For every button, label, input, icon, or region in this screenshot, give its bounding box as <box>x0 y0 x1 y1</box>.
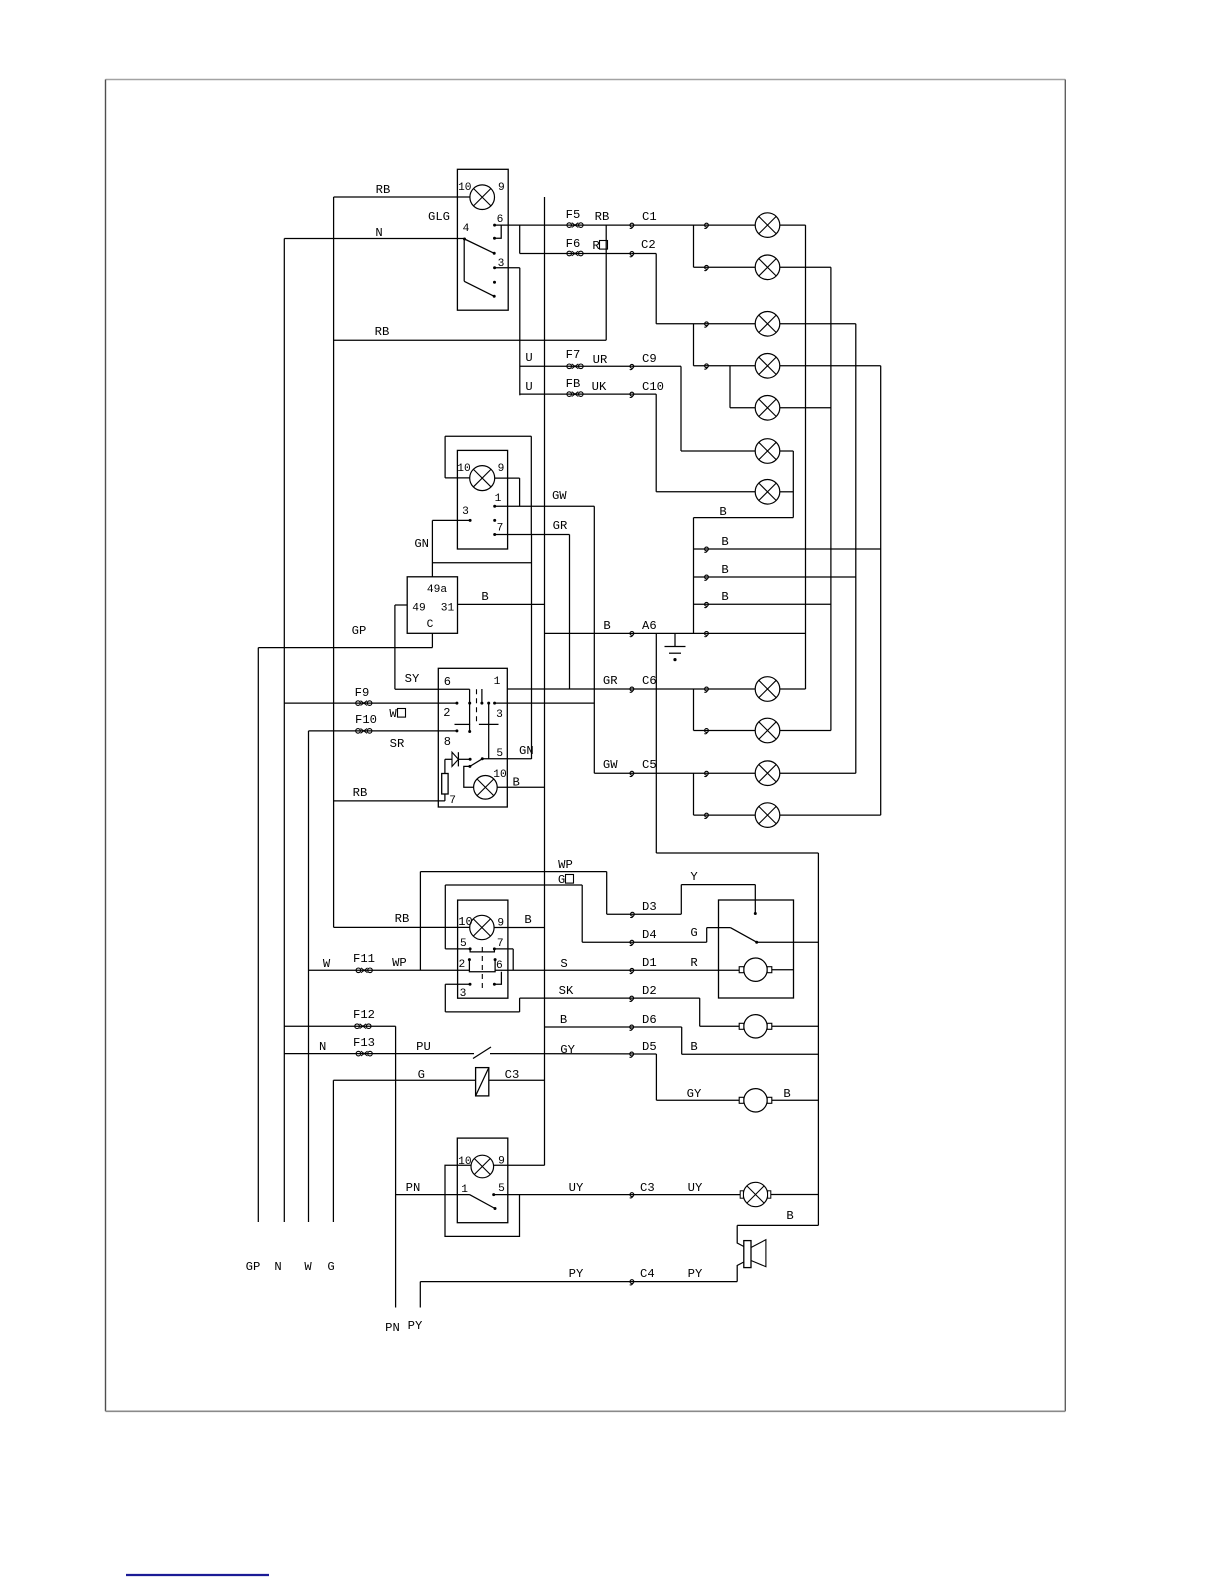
svg-text:RB: RB <box>395 912 410 926</box>
svg-text:F12: F12 <box>353 1008 375 1022</box>
wire row C6-2 feed <box>694 730 756 732</box>
wire GR row from pin7 <box>495 534 570 536</box>
wire rail N vert <box>283 239 285 1223</box>
svg-text:GP: GP <box>246 1260 261 1274</box>
U3 pin1 bracket dot <box>480 702 483 705</box>
wire pin3 drop vertical <box>519 268 521 396</box>
svg-text:2: 2 <box>459 959 466 971</box>
wire WP top row <box>420 871 606 873</box>
svg-text:GW: GW <box>552 489 567 503</box>
svg-text:N: N <box>375 226 382 240</box>
wire D2 drop to motor2 <box>699 998 701 1026</box>
horn H1 <box>744 1240 766 1268</box>
U4 pin3 row <box>445 983 470 985</box>
wire B row D6 <box>545 1026 682 1028</box>
wire PU to D5 <box>490 1053 632 1055</box>
U3 pin1 bracket <box>481 689 483 703</box>
fuse F6 <box>567 251 583 256</box>
svg-text:B: B <box>560 1013 567 1027</box>
svg-text:49: 49 <box>412 603 425 615</box>
U4 pin2 bracket <box>468 958 471 969</box>
wire motor M3 return <box>772 1099 819 1101</box>
wire relay C stub <box>431 633 433 647</box>
wire U3 lamp B out <box>497 786 544 788</box>
wire C6 row <box>507 688 755 690</box>
svg-text:PN: PN <box>406 1181 421 1195</box>
wire pin3 bottom row <box>445 1011 519 1013</box>
svg-text:G: G <box>690 926 697 940</box>
svg-text:B: B <box>721 590 728 604</box>
svg-text:1: 1 <box>461 1184 468 1196</box>
wire return vert L1 <box>805 225 807 689</box>
svg-text:7: 7 <box>497 523 504 535</box>
wire return vert L4 <box>880 366 882 815</box>
circuit breaker C3 <box>476 1068 489 1096</box>
svg-text:PU: PU <box>416 1040 431 1054</box>
junction connector C5 row <box>704 771 708 776</box>
wire U row1 to C9 <box>520 365 632 367</box>
lamp L9 <box>755 718 780 743</box>
lamp L7 <box>755 480 780 505</box>
wire U4 lamp B out <box>494 927 544 929</box>
wire row3 feed <box>656 323 755 325</box>
wire motor2 feed <box>700 1025 740 1027</box>
connector D3 <box>630 912 634 917</box>
U3 left contact bar <box>469 689 471 732</box>
wire B row top <box>694 517 794 519</box>
wire U3 pin5 row <box>482 758 531 760</box>
wire A6 row <box>545 632 806 634</box>
svg-text:U: U <box>525 380 532 394</box>
junction connector C5 row2 <box>704 813 708 818</box>
lamp L2 <box>755 255 780 280</box>
junction connector A6 row <box>704 632 708 637</box>
wire D6 to bus <box>682 1053 819 1055</box>
connector C1 <box>630 223 634 228</box>
fuse F5 <box>567 223 583 228</box>
wire U3 pin6 row <box>395 688 470 690</box>
wire RB loop right vert <box>530 436 532 534</box>
svg-text:D1: D1 <box>642 956 657 970</box>
wire D6 drop <box>681 1027 683 1054</box>
wire GN link row <box>432 562 531 564</box>
U1 switch arm 1 <box>465 239 495 253</box>
wire RB row2 <box>334 339 607 341</box>
wire C10 drop <box>655 394 657 492</box>
wire lamp L1 return <box>780 224 806 226</box>
motor M2 <box>739 1015 772 1038</box>
svg-text:B: B <box>721 535 728 549</box>
U3 switch arm <box>470 759 482 767</box>
svg-text:SR: SR <box>390 737 405 751</box>
svg-text:B: B <box>690 1040 697 1054</box>
wire U4 pin5 row <box>445 948 470 950</box>
junction connector B549 <box>704 547 708 552</box>
svg-text:B: B <box>786 1209 793 1223</box>
lamp L8 <box>755 677 780 702</box>
wire SY vert <box>394 605 396 689</box>
panel switch box U5 <box>457 1138 508 1223</box>
wire PN row <box>396 1194 470 1196</box>
wire F6 row to C2 <box>520 253 632 255</box>
connector C3 inline <box>630 1193 634 1198</box>
svg-text:GR: GR <box>603 674 618 688</box>
wire D4 G jog <box>706 928 708 943</box>
flasher relay K1 <box>407 577 457 634</box>
wire lamp L6 return <box>780 450 794 452</box>
wire row7 feed <box>656 491 755 493</box>
svg-text:F6: F6 <box>566 237 581 251</box>
wire D3 row <box>607 913 682 915</box>
wire ground bus vertical <box>693 518 695 634</box>
wire C2 jog right <box>632 253 656 255</box>
wire resistor to pin7 <box>444 794 446 801</box>
junction connector B577 <box>704 575 708 580</box>
svg-text:N: N <box>274 1260 281 1274</box>
wire GR descent <box>569 535 571 690</box>
U1 switch arm pivot dot <box>463 238 466 241</box>
U3 diode contact dot <box>469 758 472 761</box>
wire row5 feed <box>730 407 755 409</box>
wire pin3 exit <box>495 267 520 269</box>
wire branch vert rows3-4 <box>693 324 695 366</box>
svg-text:GW: GW <box>603 758 618 772</box>
svg-text:WP: WP <box>392 956 407 970</box>
connector D1 <box>630 968 634 973</box>
U3 right bar top dot <box>487 702 490 705</box>
connector D5 <box>630 1052 634 1057</box>
M1 arm tip dot <box>755 941 758 944</box>
wire rail RB vert <box>333 197 335 927</box>
wire F13 PU row <box>284 1053 474 1055</box>
wire horn bottom lead <box>737 1262 744 1282</box>
svg-text:10: 10 <box>458 1156 472 1168</box>
svg-text:C10: C10 <box>642 380 664 394</box>
lamp L4 <box>755 354 780 379</box>
svg-text:C6: C6 <box>642 674 657 688</box>
wire branch vert C1-C2 rows <box>693 225 695 267</box>
svg-text:SK: SK <box>559 984 574 998</box>
connector C9 <box>630 364 634 369</box>
svg-text:F5: F5 <box>566 208 581 222</box>
svg-text:3: 3 <box>496 709 503 721</box>
svg-text:C3: C3 <box>640 1181 655 1195</box>
wire rail W vert <box>308 731 310 1222</box>
wire horn B row <box>737 1224 818 1226</box>
U1 arm2 tip dot <box>493 295 496 298</box>
wire B row 604 <box>694 603 831 605</box>
lamp L1 <box>755 213 780 238</box>
svg-text:9: 9 <box>498 182 505 194</box>
M1 switch arm <box>730 928 756 943</box>
svg-text:GN: GN <box>414 537 429 551</box>
svg-text:D6: D6 <box>642 1013 657 1027</box>
switch box U2 <box>457 450 507 549</box>
wire RB row to box4 <box>334 926 470 928</box>
fuse F10 <box>356 729 372 734</box>
svg-text:B: B <box>783 1087 790 1101</box>
U1 contact dot row2 <box>493 237 496 240</box>
U2 pin3 row <box>432 519 469 521</box>
svg-text:7: 7 <box>449 795 456 807</box>
svg-text:SY: SY <box>405 672 420 686</box>
motor M1 <box>739 958 772 981</box>
U1 pivot extension <box>463 239 465 281</box>
wire U5 pin10 loop <box>445 1165 520 1236</box>
diode D in U3 <box>445 752 470 766</box>
U5 arm tip dot <box>494 1207 497 1210</box>
junction connector C6 row <box>704 687 708 692</box>
U3 arm top dot <box>481 757 484 760</box>
svg-text:B: B <box>721 563 728 577</box>
svg-text:3: 3 <box>462 506 469 518</box>
wire D3 riser <box>680 885 682 915</box>
wire RB loop top <box>445 435 531 437</box>
svg-text:D3: D3 <box>642 900 657 914</box>
wire lamp L2 return <box>780 266 831 268</box>
wire F12 row <box>284 1025 395 1027</box>
wire pin6 to C1 <box>495 224 632 226</box>
wire C2 drop <box>655 254 657 324</box>
svg-text:5: 5 <box>498 1183 505 1195</box>
svg-text:4: 4 <box>463 223 470 235</box>
wire motor3 feed <box>656 1099 739 1101</box>
U1 pin6 to contact link <box>495 225 502 238</box>
U1 arm tip dot <box>493 252 496 255</box>
wire return vert L2 <box>830 267 832 730</box>
U3 left bar dot <box>468 702 471 705</box>
wire A6 branch down <box>655 633 657 853</box>
wire N feed <box>284 238 464 240</box>
svg-text:GLG: GLG <box>428 210 450 224</box>
wire PY stub down <box>419 1282 421 1308</box>
lamp L11 <box>755 803 780 828</box>
svg-text:6: 6 <box>497 214 504 226</box>
ground symbol <box>665 633 686 661</box>
wire F11 WP row <box>309 969 470 971</box>
pilot lamp in U1 <box>470 185 495 210</box>
connector C5 <box>630 771 634 776</box>
svg-text:B: B <box>719 505 726 519</box>
svg-text:PY: PY <box>408 1319 423 1333</box>
svg-text:7: 7 <box>497 938 504 950</box>
svg-text:N: N <box>319 1040 326 1054</box>
wire lamp L11 return <box>780 814 881 816</box>
svg-text:8: 8 <box>444 735 451 749</box>
wire C5 row <box>594 772 755 774</box>
wire U5 pin5 out <box>494 1194 520 1196</box>
wire rail G vert <box>332 1080 334 1222</box>
wire SK row <box>520 997 700 999</box>
wire WP to D3 drop <box>606 872 608 915</box>
wire F9 row <box>284 702 457 704</box>
svg-text:RB: RB <box>595 210 610 224</box>
svg-text:B: B <box>603 619 610 633</box>
svg-text:W: W <box>304 1260 312 1274</box>
wire A6 branch to motor bus <box>656 852 818 854</box>
wire D4 row <box>582 941 707 943</box>
svg-text:2: 2 <box>443 706 450 720</box>
wire G row <box>333 1079 475 1081</box>
U4 sk contact dot <box>493 983 496 986</box>
wire PY row <box>420 1281 737 1283</box>
fuse F7 <box>567 364 583 369</box>
svg-text:F7: F7 <box>566 348 581 362</box>
U4 row1 bracket <box>470 949 494 952</box>
wire UY lamp to bus <box>771 1194 819 1196</box>
wire row C5-2 feed <box>694 814 756 816</box>
U2 pin1 dot <box>493 505 496 508</box>
motor M3 <box>739 1089 772 1112</box>
wire F6 jog vertical <box>519 225 521 253</box>
wire row2 feed <box>694 266 756 268</box>
U4 pin3 dot <box>469 983 472 986</box>
svg-text:F11: F11 <box>353 952 375 966</box>
U3 arm to lamp link <box>464 766 474 787</box>
wire lamp L7 return <box>780 491 794 493</box>
wire C3 to B bus <box>489 1079 545 1081</box>
svg-text:WP: WP <box>558 858 573 872</box>
wiper switch box U4 <box>458 900 508 998</box>
wire RB drop from C1 row <box>605 225 607 340</box>
svg-text:C9: C9 <box>642 352 657 366</box>
U5 pin5 dot <box>492 1193 495 1196</box>
U4 pin6 bracket <box>494 958 497 969</box>
wire U2 lamp to pin1 jog <box>495 477 520 479</box>
wire motor M2 return <box>772 1025 819 1027</box>
wire UY row <box>520 1194 744 1196</box>
U1 switch arm 2 <box>464 281 494 296</box>
instrument lamp UY <box>740 1182 771 1206</box>
svg-text:GP: GP <box>352 624 367 638</box>
svg-text:W: W <box>389 707 397 721</box>
wire lamp L9 return <box>780 730 831 732</box>
wire PN drop from F12 <box>395 1026 397 1307</box>
svg-text:10: 10 <box>458 182 472 194</box>
svg-text:3: 3 <box>460 988 467 1000</box>
svg-text:S: S <box>560 957 567 971</box>
U4 dashed centre link <box>481 947 483 988</box>
connector C10 <box>630 392 634 397</box>
svg-text:9: 9 <box>498 463 505 475</box>
junction connector B604 <box>704 602 708 607</box>
svg-text:G: G <box>558 873 565 887</box>
wire B bus lower vert <box>544 197 546 1165</box>
svg-text:GY: GY <box>687 1087 702 1101</box>
svg-text:C1: C1 <box>642 210 657 224</box>
wire RB row to pin7 <box>334 800 445 802</box>
svg-text:GY: GY <box>560 1043 575 1057</box>
page border frame <box>106 79 1066 81</box>
junction connector row2 <box>704 265 708 270</box>
U3 pin3 dot <box>493 702 496 705</box>
junction connector row3 <box>704 322 708 327</box>
wire branch vert rows4-5 <box>729 366 731 408</box>
wire rail GP vert <box>257 648 259 1222</box>
svg-text:49a: 49a <box>427 584 447 596</box>
wire C6 branch vert <box>693 689 695 731</box>
wire D5 drop <box>655 1054 657 1100</box>
wire return vert L3 <box>855 324 857 773</box>
wire Y row <box>681 884 755 886</box>
wire B row 549 <box>694 548 881 550</box>
lamp L6 <box>755 439 780 464</box>
wire GW descent <box>593 506 595 773</box>
lamp L10 <box>755 761 780 786</box>
wire diode to resistor <box>444 759 446 773</box>
U1 pin3 dot <box>493 266 496 269</box>
svg-text:UK: UK <box>592 380 607 394</box>
U1 pin6 contact dot <box>493 224 496 227</box>
wire U3 pin3 exit to GW <box>495 702 595 704</box>
wire GP row <box>258 647 432 649</box>
wire lamp L4 return <box>780 365 881 367</box>
svg-text:PY: PY <box>688 1267 703 1281</box>
wire arm to bus <box>757 941 819 943</box>
wire row4 feed <box>694 365 756 367</box>
U3 pin2 dot <box>455 702 458 705</box>
U1 contact dot 282 <box>493 281 496 284</box>
svg-text:UR: UR <box>593 353 608 367</box>
wire WP drop to pin2 <box>419 872 421 971</box>
pilot lamp in U5 <box>471 1155 494 1178</box>
svg-text:R: R <box>592 239 599 253</box>
svg-text:D5: D5 <box>642 1040 657 1054</box>
fuse F12 <box>355 1024 371 1029</box>
footer rule <box>126 1574 269 1576</box>
U2 pin3 dot <box>469 519 472 522</box>
junction connector C6 row2 <box>704 729 708 734</box>
connector A6 <box>630 632 634 637</box>
svg-text:UY: UY <box>569 1181 584 1195</box>
U2 pin7 dot <box>493 533 496 536</box>
wire GN drop from pin3 <box>431 520 433 576</box>
svg-text:5: 5 <box>460 938 467 950</box>
svg-text:B: B <box>524 913 531 927</box>
svg-text:RB: RB <box>376 183 391 197</box>
U4 sk contact hook <box>494 972 501 984</box>
U3 arm tip dot <box>468 765 471 768</box>
svg-text:C2: C2 <box>641 238 656 252</box>
U4 row2 bracket <box>469 970 495 972</box>
svg-text:F10: F10 <box>355 713 377 727</box>
svg-text:PN: PN <box>385 1321 400 1335</box>
svg-text:C: C <box>427 619 434 631</box>
wire U row2 to C10 <box>520 393 632 395</box>
wire F10 row <box>309 730 457 732</box>
wire GO row <box>445 884 582 886</box>
wire motor M1 return <box>772 969 794 971</box>
U3 pin8 dot <box>455 729 458 732</box>
wire relay 49 stub <box>395 604 407 606</box>
svg-text:10: 10 <box>457 463 471 475</box>
wire GO drop to pin5 <box>444 885 446 949</box>
wire GN link vert to hazard <box>531 535 533 760</box>
wire C10 jog right <box>632 393 656 395</box>
wire B row 577 <box>694 576 856 578</box>
svg-text:B: B <box>481 590 488 604</box>
svg-text:D4: D4 <box>642 928 657 942</box>
svg-text:W: W <box>323 957 331 971</box>
wire RB feed top <box>334 196 470 198</box>
connector D2 <box>630 996 634 1001</box>
wire pin3 drop <box>444 984 446 1012</box>
svg-text:GR: GR <box>553 519 568 533</box>
lamp L5 <box>755 396 780 421</box>
pilot lamp in U4 <box>470 915 494 939</box>
wire motor ground bus vert <box>817 853 819 1225</box>
wire U5 pin9 out <box>494 1164 545 1166</box>
